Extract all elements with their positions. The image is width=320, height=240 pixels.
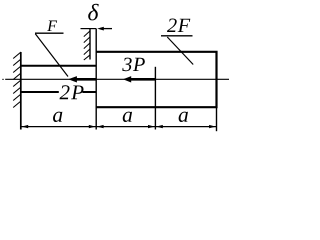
F leader line bbox=[35, 34, 68, 77]
upper support top line bbox=[81, 28, 97, 30]
dim arrow right of segment 2 bbox=[148, 125, 155, 128]
label a1 bbox=[53, 112, 62, 122]
axis end dot bbox=[2, 79, 3, 80]
3P section line / witness bbox=[154, 67, 156, 130]
label 2F bbox=[167, 19, 190, 32]
label 3P bbox=[122, 58, 145, 72]
force 2P arrow bbox=[77, 78, 97, 81]
upper support wall line bbox=[89, 29, 91, 60]
thin bar bottom edge (broken by 2P label) bbox=[21, 91, 59, 93]
dim arrow right of segment 3 bbox=[209, 125, 216, 128]
dim arrow left of segment 3 bbox=[156, 125, 163, 128]
label a2 bbox=[123, 112, 132, 122]
label delta bbox=[88, 4, 99, 21]
label F bbox=[47, 21, 57, 31]
thick bar outline bbox=[96, 52, 216, 107]
thin bar top edge bbox=[21, 65, 96, 67]
2F underline bbox=[161, 35, 193, 37]
dim arrow left of segment 2 bbox=[97, 125, 104, 128]
left fixed wall bbox=[20, 52, 22, 130]
label 2P bbox=[60, 85, 84, 99]
force 3P arrow bbox=[131, 78, 156, 81]
centerline axis bbox=[5, 78, 229, 80]
2F leader line bbox=[167, 37, 193, 65]
delta gap arrow bbox=[100, 28, 112, 30]
dimension line bbox=[21, 126, 217, 128]
upper support hatching bbox=[84, 31, 90, 60]
dim arrow right of segment 1 bbox=[89, 125, 96, 128]
wall hatching bbox=[13, 52, 21, 108]
dim arrow left of segment 1 bbox=[22, 125, 29, 128]
right witness line bbox=[216, 107, 218, 131]
label a3 bbox=[179, 112, 188, 122]
F underline bbox=[35, 32, 64, 34]
step line / left edge / witness line bbox=[95, 29, 97, 130]
